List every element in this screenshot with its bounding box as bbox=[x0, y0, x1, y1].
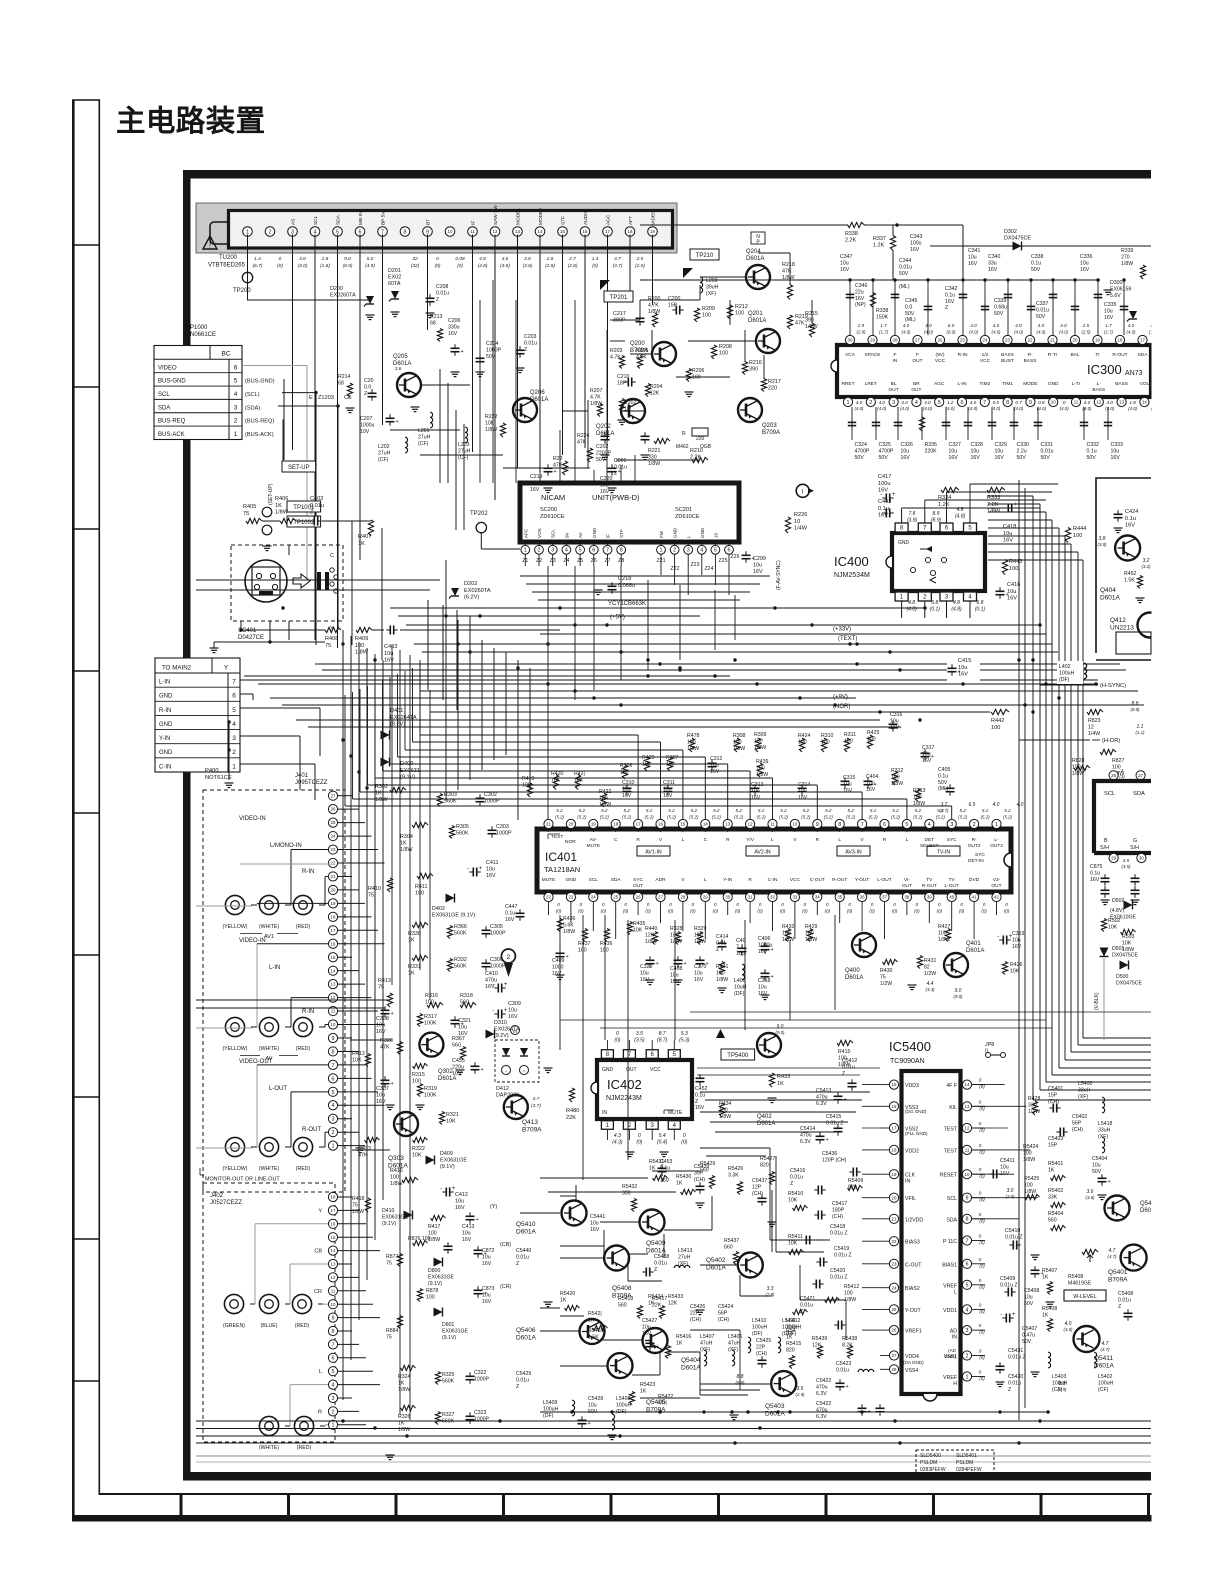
svg-text:Z: Z bbox=[790, 1181, 793, 1187]
svg-text:12: 12 bbox=[1088, 724, 1094, 730]
resistor R828 bbox=[1074, 765, 1090, 770]
resistor R420 bbox=[553, 775, 558, 790]
svg-text:5.2: 5.2 bbox=[803, 808, 810, 813]
svg-text:EX0631GE: EX0631GE bbox=[442, 1328, 468, 1334]
resistor R331 bbox=[412, 955, 428, 960]
svg-text:6: 6 bbox=[728, 548, 731, 554]
svg-text:C314: C314 bbox=[798, 782, 811, 788]
svg-text:C328: C328 bbox=[971, 442, 984, 448]
svg-text:1/8W: 1/8W bbox=[913, 801, 925, 807]
svg-text:BASS: BASS bbox=[1024, 358, 1037, 364]
svg-text:(5.2): (5.2) bbox=[869, 815, 879, 820]
svg-text:L-Tr: L-Tr bbox=[1072, 381, 1081, 387]
J402 pin 6 bbox=[328, 1353, 337, 1362]
svg-text:(CF): (CF) bbox=[378, 457, 389, 463]
svg-text:7: 7 bbox=[983, 400, 986, 406]
svg-text:DX0475CE: DX0475CE bbox=[1116, 980, 1142, 986]
capacitor C410 bbox=[497, 984, 499, 993]
svg-text:(0): (0) bbox=[914, 909, 920, 914]
svg-text:1/8W: 1/8W bbox=[756, 772, 768, 778]
svg-text:BUS-REQ: BUS-REQ bbox=[158, 419, 186, 425]
diode D202 bbox=[451, 588, 459, 596]
svg-text:Z24: Z24 bbox=[705, 566, 714, 572]
svg-text:R310: R310 bbox=[821, 733, 834, 739]
svg-text:10u: 10u bbox=[890, 718, 899, 724]
resistor R823 bbox=[1087, 709, 1103, 714]
IC402 pin 6 bbox=[646, 1050, 658, 1059]
svg-text:(4.0): (4.0) bbox=[1060, 406, 1070, 411]
resistor R418 bbox=[365, 1198, 370, 1212]
svg-text:(4.8): (4.8) bbox=[478, 263, 488, 269]
IC5400 pin 4 bbox=[962, 1305, 971, 1314]
tuner pin 4 bbox=[310, 227, 320, 237]
test point TP200 bbox=[242, 272, 252, 282]
svg-text:(3.7): (3.7) bbox=[939, 808, 949, 813]
svg-text:C410: C410 bbox=[485, 971, 498, 977]
svg-text:UN2213: UN2213 bbox=[1110, 625, 1134, 632]
RCA jack AV red bbox=[293, 1017, 312, 1036]
J402 pin 5 bbox=[328, 1367, 337, 1376]
resistor R878 bbox=[417, 1289, 422, 1302]
resistor R222 bbox=[500, 423, 505, 437]
svg-text:5.2: 5.2 bbox=[915, 808, 922, 813]
resistor R312 bbox=[892, 771, 897, 785]
ground bbox=[1136, 597, 1145, 599]
svg-text:C873: C873 bbox=[482, 1286, 495, 1292]
capacitor C323 bbox=[466, 1415, 475, 1417]
svg-text:R320: R320 bbox=[380, 1038, 393, 1044]
svg-text:STF: STF bbox=[561, 216, 567, 225]
svg-text:(3.0): (3.0) bbox=[1005, 1194, 1015, 1199]
svg-text:(9.1V): (9.1V) bbox=[440, 1164, 455, 1170]
tuner pin 15 bbox=[558, 227, 568, 237]
RCA jack green bbox=[224, 1294, 243, 1313]
svg-text:10u: 10u bbox=[949, 448, 958, 454]
svg-text:9: 9 bbox=[332, 1316, 335, 1322]
svg-text:BUS-ACK: BUS-ACK bbox=[158, 432, 185, 438]
transistor Q5408 bbox=[604, 1246, 629, 1271]
svg-text:68: 68 bbox=[430, 320, 436, 326]
svg-text:C416: C416 bbox=[1007, 582, 1020, 588]
IC401 pin 38 bbox=[902, 892, 911, 901]
svg-text:Y/V: Y/V bbox=[746, 837, 755, 843]
svg-text:560: 560 bbox=[460, 1000, 469, 1006]
svg-text:1000: 1000 bbox=[552, 964, 564, 970]
svg-text:(0): (0) bbox=[277, 263, 283, 269]
svg-text:R202: R202 bbox=[624, 400, 637, 406]
svg-text:B709A: B709A bbox=[762, 430, 780, 436]
svg-text:100: 100 bbox=[694, 932, 703, 938]
transistor Q204 bbox=[746, 265, 770, 289]
svg-text:0: 0 bbox=[979, 1078, 982, 1083]
capacitor C310 bbox=[623, 787, 632, 789]
svg-text:-: - bbox=[467, 866, 469, 872]
svg-text:4: 4 bbox=[966, 1307, 969, 1313]
capacitor C210 bbox=[627, 378, 629, 387]
J402 pin 10 bbox=[328, 1300, 337, 1309]
svg-text:H: H bbox=[953, 1381, 957, 1387]
svg-text:1.2K: 1.2K bbox=[938, 502, 950, 508]
svg-text:KIL: KIL bbox=[949, 1105, 957, 1111]
svg-text:SCL: SCL bbox=[551, 529, 556, 538]
svg-text:50V: 50V bbox=[899, 271, 909, 277]
svg-text:7: 7 bbox=[861, 822, 864, 828]
svg-text:CE: CE bbox=[344, 395, 352, 401]
svg-text:1/8W: 1/8W bbox=[805, 324, 818, 330]
svg-text:29: 29 bbox=[1111, 856, 1116, 861]
svg-text:TEST: TEST bbox=[944, 1127, 958, 1133]
svg-text:1/8W: 1/8W bbox=[1072, 771, 1084, 777]
svg-text:C5408: C5408 bbox=[1118, 1291, 1133, 1297]
capacitor C5442 bbox=[858, 1407, 867, 1409]
svg-text:L: L bbox=[838, 837, 841, 843]
IC300 pin 18 bbox=[1115, 335, 1124, 344]
svg-text:100: 100 bbox=[412, 1079, 421, 1085]
IC401 pin 41 bbox=[970, 892, 979, 901]
RCA jack audio red bbox=[294, 1416, 313, 1435]
svg-text:R435: R435 bbox=[633, 921, 646, 927]
svg-text:16V: 16V bbox=[840, 267, 850, 273]
svg-text:Q404: Q404 bbox=[1100, 587, 1116, 594]
svg-text:2.9: 2.9 bbox=[857, 323, 865, 328]
J401 pin 21 bbox=[328, 872, 337, 881]
svg-text:C442: C442 bbox=[878, 499, 891, 505]
svg-text:(5.2): (5.2) bbox=[891, 815, 901, 820]
svg-text:0: 0 bbox=[616, 1031, 619, 1037]
IC401 pin 10 bbox=[790, 819, 799, 828]
svg-text:C5413: C5413 bbox=[816, 1088, 831, 1094]
svg-text:GND: GND bbox=[898, 540, 910, 546]
svg-text:EX0264TA: EX0264TA bbox=[390, 715, 417, 721]
svg-text:C424: C424 bbox=[1125, 509, 1138, 515]
svg-text:1000P: 1000P bbox=[490, 931, 506, 937]
svg-text:0.1u: 0.1u bbox=[660, 1165, 670, 1171]
svg-text:1K: 1K bbox=[275, 503, 282, 509]
svg-text:C347: C347 bbox=[840, 254, 853, 260]
svg-text:100: 100 bbox=[415, 891, 424, 897]
capacitor C442 bbox=[885, 509, 887, 518]
svg-text:3.3K: 3.3K bbox=[728, 1172, 739, 1178]
svg-text:100uH: 100uH bbox=[752, 1324, 768, 1330]
svg-text:(4.0): (4.0) bbox=[900, 406, 910, 411]
svg-text:1/8W: 1/8W bbox=[694, 939, 706, 945]
svg-text:5.2: 5.2 bbox=[668, 808, 675, 813]
resistor R320 bbox=[397, 1042, 402, 1055]
svg-text:4.8: 4.8 bbox=[953, 600, 960, 606]
resistor R437 bbox=[582, 929, 587, 942]
IC401 pin 31 bbox=[746, 892, 755, 901]
IC300 pin 7 bbox=[980, 397, 989, 406]
svg-text:C5421: C5421 bbox=[800, 1296, 815, 1302]
svg-text:R337: R337 bbox=[873, 236, 886, 242]
svg-text:W-LEVEL: W-LEVEL bbox=[1073, 1294, 1097, 1300]
capacitor C318 bbox=[761, 972, 770, 974]
wire vertical bus left of J401 bbox=[342, 630, 344, 1400]
svg-text:16V: 16V bbox=[1104, 315, 1114, 321]
capacitor C299 bbox=[742, 554, 751, 556]
NICAM pin Z23 bbox=[684, 545, 693, 554]
svg-text:(RED): (RED) bbox=[296, 1166, 311, 1172]
resistor R478 bbox=[689, 738, 694, 752]
resistor R304 bbox=[412, 822, 428, 827]
resistor R440 bbox=[652, 932, 657, 945]
svg-text:(CF): (CF) bbox=[418, 441, 429, 447]
J401 pin 22 bbox=[328, 858, 337, 867]
svg-text:(CR): (CR) bbox=[500, 1284, 512, 1290]
svg-text:22: 22 bbox=[1028, 338, 1033, 343]
svg-text:(3.7): (3.7) bbox=[613, 263, 623, 269]
svg-text:1.2: 1.2 bbox=[947, 400, 954, 405]
svg-text:560K: 560K bbox=[444, 799, 457, 805]
svg-text:12: 12 bbox=[331, 995, 336, 1000]
svg-text:IC400: IC400 bbox=[834, 554, 869, 569]
svg-text:(4.5): (4.5) bbox=[1121, 864, 1131, 869]
svg-text:Z: Z bbox=[716, 947, 719, 953]
diode D300 symbol bbox=[1129, 311, 1137, 319]
svg-text:R428: R428 bbox=[1028, 1096, 1041, 1102]
svg-text:1K: 1K bbox=[676, 1340, 683, 1346]
svg-text:C5408: C5408 bbox=[1024, 1288, 1039, 1294]
svg-text:120P (CH): 120P (CH) bbox=[822, 1157, 847, 1163]
svg-text:10: 10 bbox=[965, 1172, 970, 1177]
svg-text:DX0475CE: DX0475CE bbox=[1004, 236, 1031, 242]
svg-text:R5424: R5424 bbox=[1023, 1144, 1038, 1150]
resistor R325 bbox=[435, 1372, 440, 1385]
node 2 circle bbox=[501, 949, 515, 963]
IC5400 pin 23 bbox=[889, 1259, 898, 1268]
IC300 pin 10 bbox=[1049, 397, 1058, 406]
svg-text:12: 12 bbox=[748, 822, 753, 827]
svg-text:+: + bbox=[566, 954, 569, 960]
svg-text:(4.0): (4.0) bbox=[1126, 330, 1136, 335]
svg-text:VI-: VI- bbox=[904, 877, 911, 883]
svg-text:5.6K: 5.6K bbox=[563, 922, 574, 928]
wire Q54xx links bbox=[652, 1170, 700, 1172]
node 30 bbox=[1137, 853, 1146, 862]
resistor R305 bbox=[449, 826, 454, 839]
node 1 circle bbox=[796, 484, 809, 497]
capacitor C309 bbox=[497, 1010, 499, 1019]
resistor R315 bbox=[413, 1063, 428, 1068]
svg-text:0.1u: 0.1u bbox=[878, 506, 889, 512]
svg-text:C200: C200 bbox=[668, 296, 681, 302]
svg-text:100: 100 bbox=[390, 1175, 399, 1181]
svg-text:R5419: R5419 bbox=[618, 1296, 633, 1302]
svg-text:2: 2 bbox=[869, 400, 872, 406]
svg-text:5: 5 bbox=[332, 1369, 335, 1375]
svg-text:38: 38 bbox=[904, 895, 909, 900]
svg-text:100: 100 bbox=[1023, 1150, 1032, 1156]
resistor R405 bbox=[246, 518, 262, 523]
diode D201 bbox=[391, 291, 399, 299]
svg-text:-: - bbox=[492, 1008, 494, 1014]
svg-text:(4.0): (4.0) bbox=[991, 330, 1001, 335]
svg-text:C321: C321 bbox=[458, 1018, 471, 1024]
svg-text:(5.2): (5.2) bbox=[555, 815, 565, 820]
tuner pin 3 bbox=[288, 227, 298, 237]
svg-text:R215: R215 bbox=[805, 311, 818, 317]
capacitor C328 bbox=[967, 407, 969, 440]
svg-text:14: 14 bbox=[331, 1248, 336, 1253]
svg-text:(0): (0) bbox=[636, 1140, 642, 1146]
svg-text:MODE2: MODE2 bbox=[538, 208, 544, 225]
svg-text:C-OUT: C-OUT bbox=[810, 877, 825, 883]
svg-text:R302: R302 bbox=[375, 784, 388, 790]
svg-text:(0): (0) bbox=[892, 909, 898, 914]
svg-text:0: 0 bbox=[638, 1133, 641, 1139]
svg-text:EX0631GE: EX0631GE bbox=[382, 1214, 408, 1220]
svg-text:D601A: D601A bbox=[516, 1229, 537, 1236]
IC5400 pin 14 bbox=[962, 1080, 971, 1089]
svg-text:+: + bbox=[1014, 502, 1018, 508]
svg-text:C339: C339 bbox=[994, 298, 1007, 304]
svg-text:(3.5): (3.5) bbox=[634, 1038, 645, 1044]
svg-text:1/2W: 1/2W bbox=[880, 981, 892, 987]
svg-text:560: 560 bbox=[618, 1302, 627, 1308]
svg-text:RESET: RESET bbox=[940, 1173, 958, 1179]
svg-text:6: 6 bbox=[332, 1076, 335, 1082]
NICAM pin 8 bbox=[617, 545, 626, 554]
svg-text:10u: 10u bbox=[751, 788, 760, 794]
svg-text:R5430: R5430 bbox=[676, 1174, 691, 1180]
svg-text:C318: C318 bbox=[758, 978, 771, 984]
svg-text:16V: 16V bbox=[901, 455, 911, 461]
svg-text:M462: M462 bbox=[676, 444, 689, 450]
svg-text:ZD610CE: ZD610CE bbox=[675, 514, 700, 520]
svg-text:J095TCEZZ: J095TCEZZ bbox=[295, 780, 328, 786]
svg-text:0.8: 0.8 bbox=[1038, 400, 1045, 405]
svg-text:C330: C330 bbox=[1017, 442, 1030, 448]
svg-text:0.01u Z: 0.01u Z bbox=[830, 1230, 848, 1236]
svg-text:10u: 10u bbox=[1012, 937, 1021, 943]
svg-text:0.01u Z: 0.01u Z bbox=[830, 1274, 848, 1280]
svg-text:1K: 1K bbox=[560, 1297, 567, 1303]
resistor R217 bbox=[761, 379, 766, 392]
capacitor C409 bbox=[556, 952, 565, 954]
svg-text:0.01u: 0.01u bbox=[790, 1174, 803, 1180]
svg-text:GND: GND bbox=[673, 527, 678, 538]
transistor Q302 bbox=[419, 1033, 443, 1057]
svg-text:(1.7): (1.7) bbox=[1104, 330, 1114, 335]
svg-text:2.7: 2.7 bbox=[568, 256, 576, 262]
capacitor C314 bbox=[798, 787, 807, 789]
svg-text:C217: C217 bbox=[613, 311, 626, 317]
svg-text:R: R bbox=[318, 1409, 322, 1415]
svg-text:16V: 16V bbox=[949, 455, 959, 461]
J402 pin 15 bbox=[328, 1233, 337, 1242]
svg-text:(4.0): (4.0) bbox=[946, 406, 956, 411]
svg-text:D801: D801 bbox=[442, 1322, 455, 1328]
svg-text:Y: Y bbox=[224, 665, 229, 672]
IC5400 pin 13 bbox=[962, 1102, 971, 1111]
svg-text:3: 3 bbox=[332, 1117, 335, 1123]
svg-text:C409: C409 bbox=[552, 958, 565, 964]
svg-text:(0): (0) bbox=[847, 909, 853, 914]
svg-text:C402: C402 bbox=[310, 496, 323, 502]
IC401 pin 3 bbox=[947, 819, 956, 828]
svg-text:SCL: SCL bbox=[158, 392, 170, 398]
capacitor C205 bbox=[368, 392, 377, 394]
svg-text:-: - bbox=[440, 1186, 442, 1192]
transistor Q5404 bbox=[643, 1328, 668, 1353]
svg-text:R: R bbox=[816, 837, 820, 843]
svg-text:(CF): (CF) bbox=[1098, 1387, 1109, 1393]
svg-text:VTBT6ED265: VTBT6ED265 bbox=[208, 263, 246, 269]
svg-text:STF: STF bbox=[619, 529, 624, 538]
capacitor C452 bbox=[696, 1077, 705, 1079]
resistor R422 bbox=[601, 793, 606, 807]
capacitor C303 bbox=[488, 829, 497, 831]
svg-text:VIDEO: VIDEO bbox=[158, 365, 177, 371]
J401 pin 23 bbox=[328, 845, 337, 854]
page crop right margin bbox=[1152, 0, 1224, 1584]
svg-text:+: + bbox=[1108, 1179, 1111, 1185]
svg-text:0: 0 bbox=[1063, 400, 1066, 405]
svg-text:5.2: 5.2 bbox=[892, 808, 899, 813]
tuner pin 12 bbox=[490, 227, 500, 237]
svg-text:16V: 16V bbox=[945, 299, 955, 305]
svg-text:(XF): (XF) bbox=[706, 291, 716, 297]
svg-text:(5.3): (5.3) bbox=[679, 1038, 690, 1044]
svg-text:(SET-UP): (SET-UP) bbox=[268, 483, 274, 505]
svg-text:50V: 50V bbox=[486, 354, 496, 360]
svg-text:R5410: R5410 bbox=[788, 1191, 803, 1197]
svg-text:5.2: 5.2 bbox=[691, 808, 698, 813]
svg-text:R5422: R5422 bbox=[658, 1394, 673, 1400]
IC300 pin 12 bbox=[1094, 397, 1103, 406]
svg-text:R-IN: R-IN bbox=[302, 869, 314, 875]
svg-text:(YELLOW): (YELLOW) bbox=[222, 924, 247, 930]
IC IC300 AN7312 bbox=[837, 345, 1151, 397]
svg-text:10u: 10u bbox=[694, 970, 703, 976]
svg-text:RRET: RRET bbox=[841, 381, 854, 387]
svg-text:100: 100 bbox=[938, 930, 947, 936]
svg-text:100: 100 bbox=[719, 351, 728, 357]
resistor R5409 bbox=[848, 1185, 863, 1190]
svg-text:0.01u: 0.01u bbox=[1118, 1297, 1131, 1303]
IC300 pin 6 bbox=[957, 397, 966, 406]
transistor Q5403 bbox=[771, 1371, 796, 1396]
svg-text:1.5K: 1.5K bbox=[1124, 577, 1135, 583]
svg-text:C315: C315 bbox=[843, 775, 856, 781]
svg-text:(2.9): (2.9) bbox=[856, 330, 866, 335]
svg-text:220K: 220K bbox=[925, 448, 938, 454]
svg-text:26: 26 bbox=[892, 1328, 897, 1333]
svg-text:4.8: 4.8 bbox=[479, 256, 486, 262]
svg-text:16V: 16V bbox=[482, 1299, 492, 1305]
svg-text:L-: L- bbox=[994, 837, 999, 843]
svg-text:6: 6 bbox=[332, 1356, 335, 1362]
svg-text:1/8W: 1/8W bbox=[590, 401, 602, 407]
svg-text:1/8W: 1/8W bbox=[782, 275, 795, 281]
svg-text:47K: 47K bbox=[782, 269, 792, 275]
svg-text:10K: 10K bbox=[1108, 924, 1118, 930]
svg-text:P400: P400 bbox=[205, 768, 219, 774]
IC5400 pin 20 bbox=[889, 1193, 898, 1202]
svg-text:C5438: C5438 bbox=[654, 1254, 669, 1260]
svg-text:4.0: 4.0 bbox=[993, 802, 1000, 808]
IC400 pin 2 bbox=[918, 592, 931, 601]
svg-text:47uH: 47uH bbox=[728, 1340, 741, 1346]
IC401 pin 18 bbox=[611, 819, 620, 828]
svg-text:(0): (0) bbox=[645, 909, 651, 914]
svg-text:VDD1: VDD1 bbox=[943, 1308, 957, 1314]
J402 pin 17 bbox=[328, 1206, 337, 1215]
capacitor above IC300 col9 bbox=[1073, 278, 1076, 281]
svg-text:1K: 1K bbox=[640, 1388, 647, 1394]
svg-text:C201: C201 bbox=[614, 458, 627, 464]
transistor Q303 bbox=[394, 1112, 418, 1136]
